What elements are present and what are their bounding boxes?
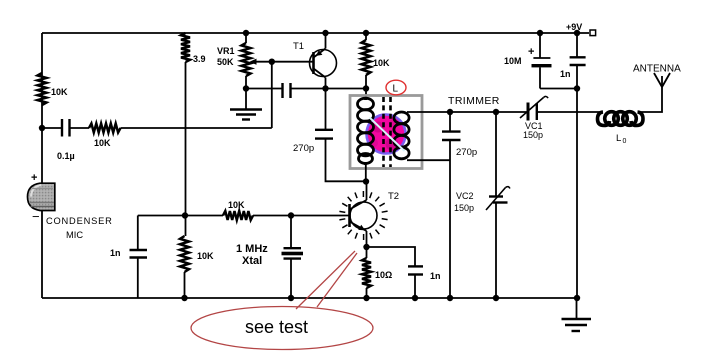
inductor L0 — [598, 112, 644, 145]
resistor 10K (T1 collector) — [362, 40, 391, 75]
wire emitter to 10ohm — [366, 247, 368, 258]
wire audio row to riser — [121, 127, 272, 129]
svg-text:10K: 10K — [197, 251, 214, 261]
svg-text:10K: 10K — [228, 200, 245, 210]
microphone condenser mic — [28, 172, 113, 240]
label L circle — [386, 80, 406, 95]
node VC2 bottom rail — [493, 295, 499, 301]
varicap VC2 150p — [454, 187, 510, 213]
capacitor bypass — [283, 83, 291, 98]
wire emitter to 1n — [367, 247, 416, 266]
wire 10K to coil — [365, 75, 367, 100]
svg-text:CONDENSER: CONDENSER — [46, 216, 113, 226]
node 10ohm bottom rail — [363, 295, 369, 301]
wire VC2 drop — [495, 112, 497, 196]
svg-text:+9V: +9V — [566, 22, 582, 32]
svg-text:1n: 1n — [560, 69, 571, 79]
crystal 1MHz Xtal — [236, 216, 303, 299]
svg-text:L: L — [393, 84, 399, 95]
node 10K top rail — [363, 30, 369, 36]
svg-text:3.9: 3.9 — [193, 54, 206, 64]
node T2 emitter junction — [363, 244, 369, 250]
node bottom rail x185 — [181, 295, 187, 301]
node coil top — [363, 85, 369, 91]
wire bypass to T1 — [291, 88, 367, 90]
wire base row — [138, 215, 223, 217]
node T1 bottom — [322, 85, 328, 91]
svg-text:T1: T1 — [293, 41, 304, 52]
svg-text:Xtal: Xtal — [242, 255, 262, 267]
antenna — [633, 64, 681, 88]
slug adjust line — [370, 118, 405, 152]
inductor transformer secondary coil — [394, 112, 409, 159]
capacitor 1n (left) — [110, 248, 147, 258]
wire L0 to antenna — [638, 76, 662, 112]
wire audio row — [42, 127, 61, 129]
wire cap to resistor — [70, 127, 90, 129]
callout see test — [191, 251, 373, 350]
wire coil bottom down — [365, 165, 367, 182]
svg-text:TRIMMER: TRIMMER — [448, 95, 500, 107]
svg-text:10K: 10K — [51, 87, 68, 97]
node VC2 top — [493, 109, 499, 115]
svg-text:VR1: VR1 — [217, 46, 235, 56]
terminal +9V — [566, 22, 596, 36]
capacitor 270p (left) — [293, 130, 333, 154]
inductor transformer primary coil — [358, 98, 374, 165]
wire emitter bypass row — [246, 88, 282, 90]
node VR1 bottom — [243, 85, 249, 91]
svg-text:270p: 270p — [456, 147, 477, 158]
svg-text:50K: 50K — [217, 57, 234, 67]
wire secondary top to trimmer row — [407, 111, 528, 113]
node T1 top rail — [322, 30, 328, 36]
wire 10ohm to rail — [366, 288, 368, 298]
svg-text:T2: T2 — [388, 191, 399, 202]
transistor T1 — [293, 33, 337, 89]
svg-text:10K: 10K — [373, 58, 390, 68]
transformer core — [384, 97, 391, 167]
wire top rail — [42, 32, 589, 34]
capacitor 10M electrolytic — [504, 30, 577, 89]
T2 sunburst — [339, 191, 387, 240]
wire secondary bottom row — [407, 159, 450, 161]
node wiper riser — [269, 59, 275, 65]
svg-text:+: + — [31, 172, 37, 184]
svg-text:10M: 10M — [504, 56, 522, 66]
ground VR1 — [230, 89, 262, 120]
node base row left — [182, 212, 188, 218]
wire 10K to bottom rail — [184, 272, 186, 298]
svg-text:270p: 270p — [293, 143, 314, 154]
wire 1n to rail — [414, 275, 416, 299]
node xtal bottom rail — [288, 295, 294, 301]
resistor 3.9 — [181, 33, 206, 64]
svg-text:MIC: MIC — [66, 230, 83, 240]
svg-text:0.1µ: 0.1µ — [57, 151, 75, 161]
wire riser to wiper row — [271, 62, 273, 128]
svg-text:1 MHz: 1 MHz — [236, 243, 268, 255]
svg-text:ANTENNA: ANTENNA — [633, 64, 681, 75]
svg-text:150p: 150p — [523, 130, 543, 140]
node 1n bottom rail — [412, 295, 418, 301]
capacitor 1n (emitter) — [408, 266, 441, 281]
svg-text:L: L — [616, 133, 621, 144]
wire bottom rail — [42, 297, 577, 299]
capacitor 0.1u — [57, 119, 75, 161]
svg-text:1n: 1n — [110, 248, 121, 258]
transistor T2 — [350, 182, 400, 248]
resistor R 10K (left) — [38, 73, 69, 105]
wire 1n to rail — [137, 258, 139, 299]
ground main — [562, 298, 592, 331]
resistor 10 ohm — [362, 258, 392, 288]
potentiometer VR1 50K — [217, 30, 314, 89]
svg-text:10K: 10K — [94, 138, 111, 148]
svg-text:0: 0 — [623, 138, 627, 145]
svg-text:VC2: VC2 — [456, 191, 474, 201]
node audio junction — [39, 125, 45, 131]
wire base row right — [253, 215, 350, 217]
resistor 10K (audio series) — [89, 124, 121, 149]
wire rail to 10K — [365, 33, 367, 40]
svg-text:+: + — [528, 46, 534, 58]
wire left vertical — [41, 33, 43, 298]
node transformer bottom junction — [363, 178, 369, 184]
capacitor 1n (supply) — [560, 30, 586, 298]
transformer slug — [367, 115, 406, 154]
wire VC2 to rail — [495, 203, 497, 299]
svg-text:10Ω: 10Ω — [375, 270, 392, 280]
resistor 10K (bias lower) — [180, 236, 214, 272]
resistor 10K (base series) — [223, 200, 253, 220]
wire T1 down to 270p — [325, 89, 327, 130]
svg-text:−: − — [32, 209, 40, 224]
varicap VC1 150p — [520, 96, 548, 140]
transformer shield box — [350, 96, 422, 169]
svg-text:1n: 1n — [430, 271, 441, 281]
capacitor 270p (right) — [442, 112, 477, 298]
wire 270p to transformer bottom — [326, 139, 367, 182]
svg-text:150p: 150p — [454, 203, 474, 213]
svg-text:see test: see test — [245, 317, 308, 337]
node bottom rail right — [574, 295, 580, 301]
node 270p right top — [447, 109, 453, 115]
wire 1n drop — [137, 216, 139, 251]
node supply caps bottom — [574, 85, 580, 91]
wire 3.9 down to base row — [185, 62, 187, 236]
node 270p bottom rail — [447, 295, 453, 301]
node xtal top — [288, 212, 294, 218]
